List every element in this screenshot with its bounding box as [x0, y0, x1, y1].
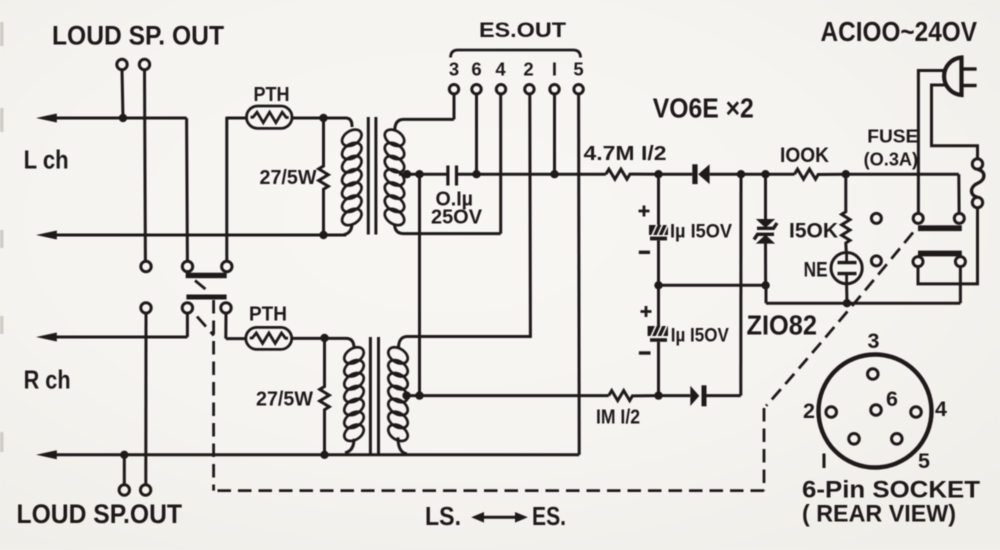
- svg-text:25OV: 25OV: [431, 206, 482, 229]
- svg-text:4.7M I/2: 4.7M I/2: [584, 142, 667, 165]
- svg-text:ES.: ES.: [532, 503, 566, 531]
- svg-text:4: 4: [495, 59, 506, 80]
- svg-text:ES.OUT: ES.OUT: [479, 18, 566, 42]
- svg-text:ACIOO~24OV: ACIOO~24OV: [821, 16, 978, 47]
- svg-text:Iµ I5OV: Iµ I5OV: [671, 326, 729, 347]
- svg-text:6: 6: [886, 387, 898, 411]
- svg-text:VO6E ×2: VO6E ×2: [653, 93, 754, 124]
- svg-text:PTH: PTH: [249, 304, 287, 326]
- svg-text:I: I: [821, 449, 827, 473]
- svg-text:ZIO82: ZIO82: [747, 310, 818, 341]
- svg-text:LOUD SP. OUT: LOUD SP. OUT: [52, 21, 224, 51]
- svg-text:I: I: [552, 59, 557, 80]
- svg-text:L ch: L ch: [24, 145, 69, 175]
- svg-text:( REAR VIEW): ( REAR VIEW): [802, 501, 956, 528]
- svg-text:IOOK: IOOK: [780, 143, 829, 167]
- svg-text:3: 3: [868, 329, 880, 353]
- svg-text:PTH: PTH: [254, 84, 290, 106]
- svg-text:I5OK: I5OK: [789, 219, 838, 243]
- svg-text:2: 2: [803, 399, 815, 423]
- svg-text:NE: NE: [804, 258, 828, 282]
- svg-text:4: 4: [935, 397, 947, 421]
- svg-text:6: 6: [471, 59, 481, 80]
- svg-text:LS.: LS.: [425, 503, 461, 531]
- svg-text:27/5W: 27/5W: [256, 388, 314, 411]
- svg-text:IM I/2: IM I/2: [596, 406, 640, 429]
- svg-text:R ch: R ch: [24, 365, 71, 395]
- svg-text:Iµ I5OV: Iµ I5OV: [670, 222, 732, 243]
- svg-text:5: 5: [573, 59, 583, 80]
- svg-text:2: 2: [523, 59, 533, 80]
- svg-text:5: 5: [918, 449, 930, 473]
- svg-text:6-Pin SOCKET: 6-Pin SOCKET: [802, 477, 980, 504]
- svg-text:3: 3: [449, 59, 459, 80]
- svg-text:27/5W: 27/5W: [260, 166, 318, 189]
- svg-text:LOUD SP.OUT: LOUD SP.OUT: [17, 499, 183, 529]
- svg-text:FUSE: FUSE: [867, 126, 918, 147]
- svg-text:(O.3A): (O.3A): [864, 149, 919, 170]
